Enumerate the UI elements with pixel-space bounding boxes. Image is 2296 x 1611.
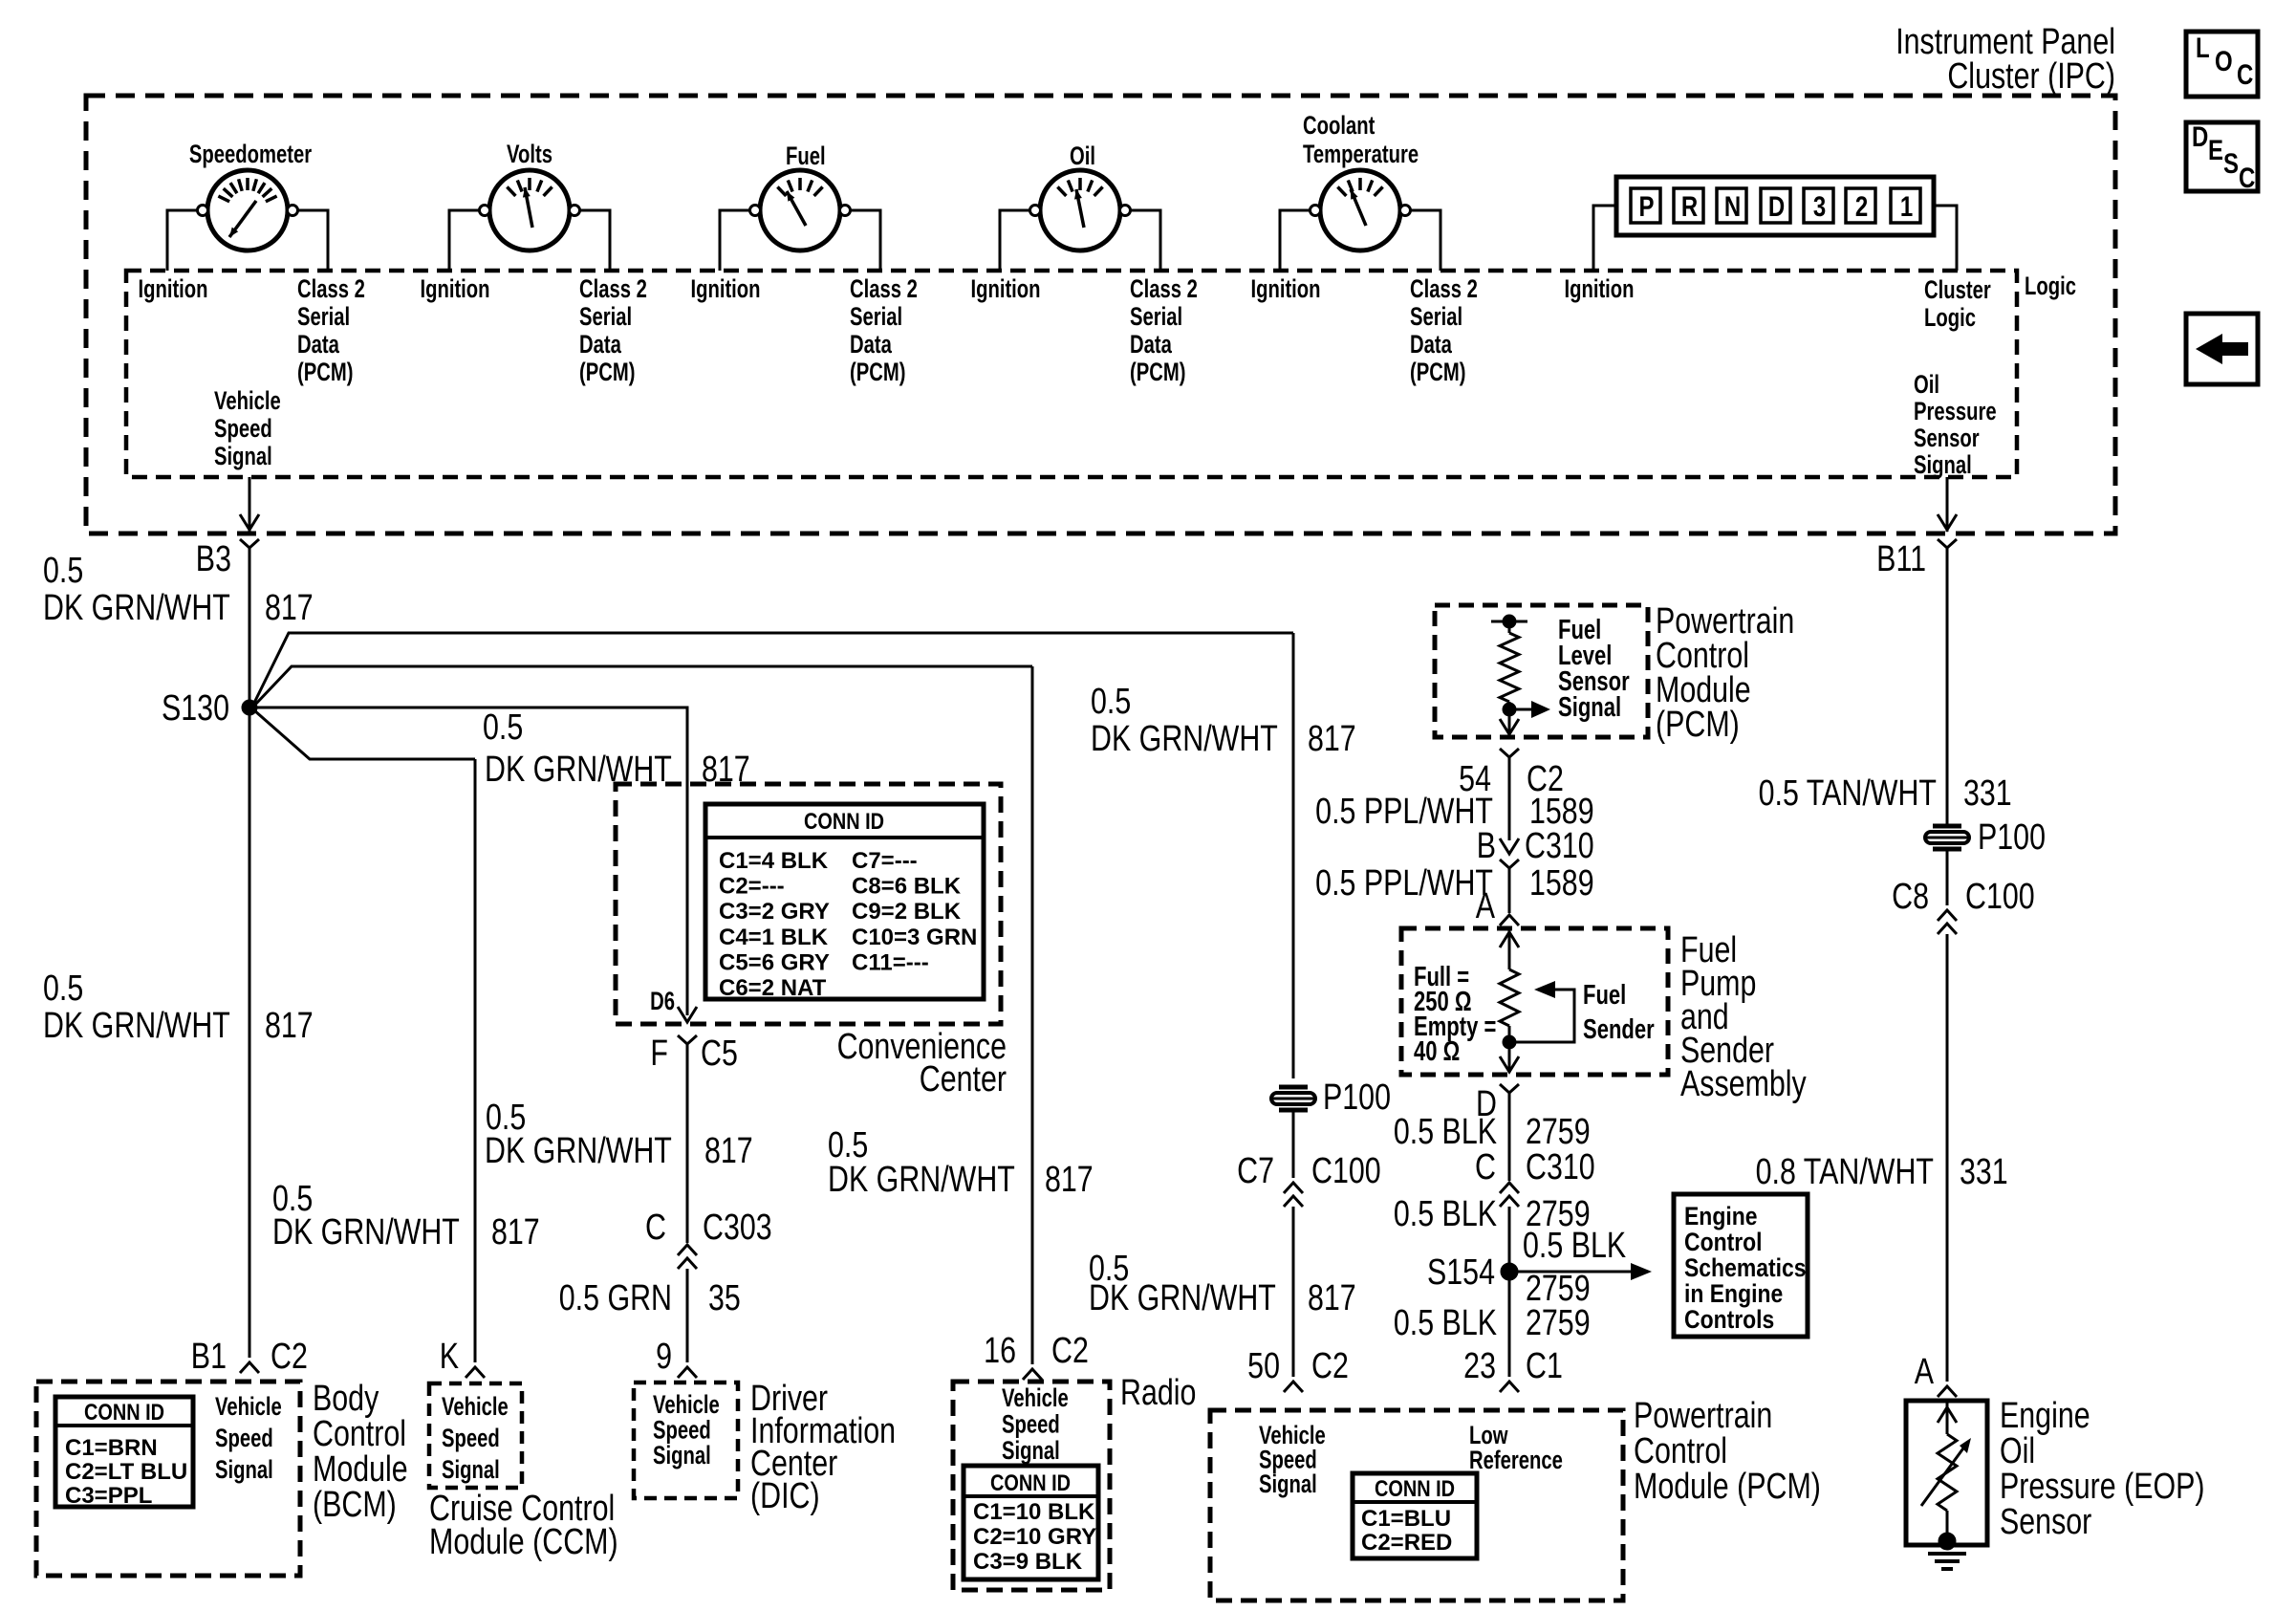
svg-text:Signal: Signal (1914, 450, 1972, 480)
svg-text:Serial: Serial (579, 302, 632, 332)
wire S130 to BCM B1 (branch 5) (249, 708, 251, 1358)
svg-text:CONN ID: CONN ID (990, 1469, 1071, 1495)
svg-text:Body: Body (313, 1379, 379, 1419)
svg-text:C7=---: C7=--- (852, 848, 918, 874)
svg-text:Reference: Reference (1469, 1446, 1563, 1475)
svg-text:CONN ID: CONN ID (84, 1399, 164, 1425)
svg-text:(PCM): (PCM) (579, 358, 635, 387)
svg-text:(PCM): (PCM) (1130, 358, 1185, 387)
svg-text:Coolant: Coolant (1303, 111, 1375, 141)
svg-text:Data: Data (579, 330, 622, 359)
svg-text:Engine: Engine (2000, 1396, 2090, 1436)
svg-text:0.5 BLK: 0.5 BLK (1394, 1194, 1497, 1234)
svg-text:Serial: Serial (1130, 302, 1182, 332)
svg-text:0.5 BLK: 0.5 BLK (1394, 1303, 1497, 1343)
svg-text:0.8 TAN/WHT: 0.8 TAN/WHT (1756, 1152, 1934, 1192)
svg-text:C: C (2237, 57, 2253, 90)
DESC reference box (2186, 122, 2258, 191)
svg-text:Speed: Speed (1002, 1410, 1060, 1440)
svg-text:Signal: Signal (214, 442, 272, 471)
wire S130 to CCM K (branch 4) (254, 710, 475, 759)
CONN ID table (PCM) (1353, 1473, 1477, 1558)
svg-text:DK GRN/WHT: DK GRN/WHT (1091, 719, 1278, 759)
wire S130 to DIC via Convenience Center (branch 3) (257, 708, 687, 1015)
svg-text:C6=2 NAT: C6=2 NAT (719, 975, 827, 1001)
svg-text:C2=---: C2=--- (719, 874, 785, 900)
svg-text:2759: 2759 (1526, 1112, 1591, 1152)
CONN ID table (Convenience Center) (705, 804, 984, 999)
IPC outer dashed box (86, 96, 2115, 533)
svg-text:Logic: Logic (1924, 303, 1976, 333)
svg-text:R: R (1681, 189, 1699, 222)
svg-text:D: D (1768, 189, 1785, 222)
svg-text:DK GRN/WHT: DK GRN/WHT (43, 1006, 230, 1046)
svg-text:B1: B1 (191, 1337, 227, 1377)
svg-text:C8: C8 (1892, 877, 1929, 917)
svg-text:C: C (645, 1208, 666, 1248)
PRNDL gear indicator P R N D 3 2 1 (1616, 177, 1934, 235)
connector C7 C100 (1284, 1183, 1303, 1193)
EOP variable resistor (1946, 1401, 1949, 1434)
svg-text:Temperature: Temperature (1303, 140, 1419, 169)
svg-text:C2=LT BLU: C2=LT BLU (65, 1459, 187, 1485)
svg-text:Class 2: Class 2 (1130, 274, 1198, 304)
svg-text:0.5: 0.5 (43, 969, 83, 1009)
svg-text:D6: D6 (650, 987, 675, 1016)
svg-text:0.5 PPL/WHT: 0.5 PPL/WHT (1315, 863, 1493, 903)
svg-text:C100: C100 (1965, 877, 2035, 917)
connector P100 (left, pass-through grommet) (1279, 1085, 1308, 1090)
svg-text:Speed: Speed (214, 414, 272, 444)
svg-text:Class 2: Class 2 (297, 274, 365, 304)
PCM fuel level sensor dashed box (1435, 605, 1648, 737)
svg-text:817: 817 (1045, 1160, 1094, 1200)
wire Volts ignition lead (449, 210, 480, 271)
wire S130 to Radio 16 C2 (branch 2) (254, 666, 1032, 706)
gauge Speedometer (207, 170, 288, 250)
svg-text:O: O (2215, 44, 2233, 76)
wire Speedometer ignition lead (167, 210, 198, 271)
wire Coolant Temperature ignition lead (1280, 210, 1310, 271)
svg-text:Module (PCM): Module (PCM) (1634, 1467, 1821, 1507)
svg-text:Data: Data (1410, 330, 1453, 359)
svg-text:P100: P100 (1323, 1078, 1391, 1118)
fuel level sensor resistor (1491, 620, 1527, 623)
svg-text:0.5 GRN: 0.5 GRN (559, 1278, 672, 1318)
svg-text:0.5 BLK: 0.5 BLK (1523, 1226, 1626, 1266)
svg-text:(BCM): (BCM) (313, 1485, 397, 1525)
wire Speedometer class 2 serial data lead (297, 210, 328, 271)
wire fuel sender low reference (1508, 1042, 1511, 1073)
IPC inner dashed box (126, 271, 2017, 477)
svg-text:Control: Control (1684, 1228, 1763, 1256)
svg-text:(DIC): (DIC) (750, 1476, 820, 1516)
Fuel Pump and Sender Assembly dashed box (1401, 928, 1668, 1075)
svg-text:P100: P100 (1978, 817, 2046, 858)
Radio dashed box (953, 1382, 1110, 1590)
svg-text:DK GRN/WHT: DK GRN/WHT (485, 1131, 672, 1171)
svg-text:C1=10 BLK: C1=10 BLK (973, 1499, 1095, 1525)
svg-text:C11=---: C11=--- (852, 949, 929, 975)
svg-text:Ignition: Ignition (1564, 274, 1634, 304)
svg-text:Class 2: Class 2 (1410, 274, 1478, 304)
svg-text:0.5: 0.5 (1091, 682, 1131, 722)
svg-text:CONN ID: CONN ID (1375, 1475, 1455, 1501)
svg-text:16: 16 (984, 1331, 1016, 1371)
svg-text:Radio: Radio (1120, 1373, 1196, 1413)
svg-text:C2: C2 (271, 1337, 308, 1377)
svg-text:Speed: Speed (215, 1424, 273, 1453)
svg-text:C10=3 GRN: C10=3 GRN (852, 925, 977, 950)
svg-text:2759: 2759 (1526, 1303, 1591, 1343)
svg-text:0.5 PPL/WHT: 0.5 PPL/WHT (1315, 792, 1493, 832)
svg-text:Sensor: Sensor (2000, 1502, 2091, 1542)
connector F C5 (678, 1035, 697, 1044)
svg-text:Oil: Oil (1914, 370, 1939, 400)
svg-text:Cluster (IPC): Cluster (IPC) (1947, 56, 2115, 97)
svg-text:C3=9 BLK: C3=9 BLK (973, 1549, 1083, 1575)
svg-text:35: 35 (708, 1278, 741, 1318)
svg-text:Class 2: Class 2 (850, 274, 918, 304)
svg-text:Signal: Signal (1259, 1469, 1317, 1499)
Powertrain Control Module (PCM) dashed box (1210, 1410, 1623, 1600)
svg-text:Oil: Oil (1070, 142, 1095, 171)
svg-text:3: 3 (1813, 189, 1826, 222)
wire S130 to PCM 50 C2 (branch 1) (254, 633, 1293, 703)
svg-text:817: 817 (265, 1006, 314, 1046)
wire B3 vehicle speed signal (IPC to S130) (249, 477, 251, 532)
svg-text:Vehicle: Vehicle (215, 1392, 282, 1422)
svg-text:0.5 BLK: 0.5 BLK (1394, 1112, 1497, 1152)
svg-text:Volts: Volts (507, 140, 552, 169)
svg-text:40 Ω: 40 Ω (1414, 1036, 1460, 1067)
svg-text:(PCM): (PCM) (1410, 358, 1465, 387)
svg-text:Module (CCM): Module (CCM) (429, 1522, 618, 1562)
svg-text:C310: C310 (1526, 1147, 1595, 1187)
svg-text:DK GRN/WHT: DK GRN/WHT (43, 588, 230, 628)
svg-text:Ignition: Ignition (138, 274, 207, 304)
wire Oil ignition lead (1000, 210, 1030, 271)
svg-text:C310: C310 (1525, 826, 1594, 866)
svg-text:Pressure: Pressure (1914, 397, 1997, 426)
svg-text:C1: C1 (1526, 1346, 1563, 1386)
svg-text:B3: B3 (196, 539, 231, 579)
svg-text:Oil: Oil (2000, 1431, 2035, 1471)
svg-text:0.5 TAN/WHT: 0.5 TAN/WHT (1759, 773, 1937, 814)
Engine Control Schematics reference box (1674, 1194, 1808, 1337)
svg-text:Powertrain: Powertrain (1634, 1396, 1772, 1436)
svg-text:817: 817 (1308, 719, 1356, 759)
CONN ID table (BCM) (55, 1397, 193, 1507)
svg-text:Pressure (EOP): Pressure (EOP) (2000, 1467, 2205, 1507)
svg-text:Fuel: Fuel (1583, 980, 1626, 1011)
svg-text:(PCM): (PCM) (850, 358, 905, 387)
svg-text:2: 2 (1855, 189, 1868, 222)
gauge Oil (1040, 170, 1120, 250)
svg-text:C3=PPL: C3=PPL (65, 1483, 152, 1509)
svg-text:Logic: Logic (2025, 272, 2076, 301)
svg-text:S154: S154 (1427, 1252, 1495, 1293)
svg-text:Vehicle: Vehicle (442, 1392, 509, 1422)
wire Volts class 2 serial data lead (579, 210, 610, 271)
svg-text:C5=6 GRY: C5=6 GRY (719, 949, 830, 975)
svg-text:C: C (1475, 1147, 1496, 1187)
svg-text:Control: Control (313, 1414, 406, 1454)
svg-text:B: B (1477, 826, 1496, 866)
svg-text:Module: Module (313, 1449, 408, 1490)
svg-text:Schematics: Schematics (1684, 1253, 1807, 1282)
fuel sender wiper arrow (1509, 990, 1574, 1042)
Cruise Control Module (CCM) dashed box (429, 1383, 522, 1488)
svg-text:C9=2 BLK: C9=2 BLK (852, 899, 962, 925)
svg-text:C2: C2 (1051, 1331, 1089, 1371)
splice S130 (242, 700, 257, 715)
svg-text:CONN ID: CONN ID (804, 808, 884, 834)
svg-text:K: K (440, 1337, 459, 1377)
svg-text:1589: 1589 (1529, 863, 1594, 903)
fuel sender rheostat (1508, 928, 1511, 969)
svg-text:C8=6 BLK: C8=6 BLK (852, 874, 962, 900)
wire Coolant Temperature class 2 serial data lead (1410, 210, 1440, 271)
svg-text:817: 817 (704, 1131, 753, 1171)
svg-text:Ignition: Ignition (1250, 274, 1320, 304)
svg-text:Data: Data (297, 330, 340, 359)
svg-text:23: 23 (1463, 1346, 1496, 1386)
svg-text:Signal: Signal (653, 1441, 711, 1470)
EOP wiper arrow (variable) (1921, 1446, 1965, 1506)
svg-text:C7: C7 (1237, 1151, 1274, 1191)
wire fuel level sensor output (1508, 709, 1511, 735)
svg-text:Serial: Serial (850, 302, 902, 332)
svg-text:C1=BRN: C1=BRN (65, 1435, 158, 1461)
svg-text:C2=RED: C2=RED (1361, 1530, 1452, 1556)
fuel level sensor signal arrow (1509, 708, 1537, 711)
svg-text:N: N (1724, 189, 1741, 222)
svg-text:DK GRN/WHT: DK GRN/WHT (272, 1212, 460, 1252)
svg-text:Center: Center (920, 1059, 1007, 1099)
svg-text:C303: C303 (703, 1208, 772, 1248)
gauge Volts (489, 170, 570, 250)
Convenience Center dashed box (616, 784, 1001, 1024)
svg-text:Ignition: Ignition (970, 274, 1040, 304)
svg-text:C: C (2239, 161, 2255, 193)
svg-text:C100: C100 (1311, 1151, 1381, 1191)
svg-text:Class 2: Class 2 (579, 274, 647, 304)
svg-text:C1=BLU: C1=BLU (1361, 1506, 1451, 1532)
svg-text:E: E (2208, 133, 2223, 165)
svg-text:F: F (650, 1034, 668, 1074)
splice S154 (1501, 1263, 1518, 1280)
ground (EOP sensor) (1939, 1533, 1956, 1550)
svg-text:A: A (1915, 1352, 1934, 1392)
svg-text:817: 817 (1308, 1278, 1356, 1318)
svg-text:C5: C5 (701, 1034, 738, 1074)
svg-text:Vehicle: Vehicle (1002, 1383, 1069, 1413)
svg-text:in Engine: in Engine (1684, 1279, 1783, 1308)
svg-text:C1=4 BLK: C1=4 BLK (719, 848, 829, 874)
svg-text:817: 817 (491, 1212, 540, 1252)
svg-text:Speed: Speed (442, 1424, 500, 1453)
connector C C303 (678, 1245, 697, 1255)
svg-text:L: L (2196, 31, 2210, 63)
Engine Oil Pressure (EOP) Sensor box (1906, 1401, 1987, 1545)
svg-text:Speedometer: Speedometer (189, 140, 312, 169)
svg-text:331: 331 (1963, 773, 2012, 814)
svg-text:C3=2 GRY: C3=2 GRY (719, 899, 830, 925)
svg-text:817: 817 (265, 588, 314, 628)
svg-text:Data: Data (1130, 330, 1173, 359)
wire Oil class 2 serial data lead (1130, 210, 1160, 271)
svg-text:S: S (2223, 146, 2239, 179)
wire Fuel ignition lead (720, 210, 750, 271)
svg-text:1: 1 (1900, 189, 1913, 222)
connector P100 (right) (1933, 824, 1961, 829)
wire PRNDL cluster logic lead (1934, 206, 1957, 271)
svg-text:Serial: Serial (297, 302, 350, 332)
wire S154 branch to engine controls (1509, 1271, 1636, 1274)
svg-text:Control: Control (1634, 1431, 1727, 1471)
Body Control Module (BCM) dashed box (36, 1382, 300, 1576)
wire PRNDL ignition lead (1593, 206, 1616, 271)
svg-text:C4=1 BLK: C4=1 BLK (719, 925, 829, 950)
svg-text:Sensor: Sensor (1914, 424, 1980, 453)
svg-text:DK GRN/WHT: DK GRN/WHT (828, 1160, 1015, 1200)
svg-text:0.5: 0.5 (483, 708, 523, 748)
wire B11 oil pressure sensor signal (1946, 477, 1949, 532)
svg-text:C2: C2 (1311, 1346, 1349, 1386)
svg-text:Serial: Serial (1410, 302, 1462, 332)
svg-text:Engine: Engine (1684, 1202, 1758, 1230)
svg-text:Signal: Signal (1558, 692, 1621, 723)
svg-text:Signal: Signal (215, 1455, 273, 1485)
svg-text:D: D (2192, 120, 2208, 152)
svg-text:Ignition: Ignition (690, 274, 760, 304)
svg-text:P: P (1638, 189, 1654, 222)
LOC reference box (2186, 32, 2258, 97)
wire Fuel class 2 serial data lead (850, 210, 880, 271)
svg-text:C2=10 GRY: C2=10 GRY (973, 1524, 1096, 1550)
svg-text:0.5: 0.5 (43, 551, 83, 591)
svg-text:331: 331 (1960, 1152, 2008, 1192)
svg-text:9: 9 (656, 1337, 672, 1377)
svg-text:Fuel: Fuel (786, 142, 826, 171)
svg-text:Signal: Signal (1002, 1436, 1060, 1466)
svg-text:DK GRN/WHT: DK GRN/WHT (1089, 1278, 1276, 1318)
svg-text:(PCM): (PCM) (297, 358, 353, 387)
Driver Information Center (DIC) dashed box (634, 1382, 738, 1498)
gauge Fuel (760, 170, 840, 250)
svg-text:Cluster: Cluster (1924, 275, 1991, 305)
svg-text:(PCM): (PCM) (1656, 705, 1740, 745)
svg-text:Sender: Sender (1583, 1014, 1655, 1045)
svg-text:A: A (1476, 886, 1495, 926)
svg-text:Signal: Signal (442, 1455, 500, 1485)
svg-text:S130: S130 (162, 688, 229, 729)
svg-text:Vehicle: Vehicle (214, 386, 281, 416)
CONN ID table (Radio) (964, 1466, 1098, 1579)
svg-text:Data: Data (850, 330, 893, 359)
svg-text:50: 50 (1247, 1346, 1280, 1386)
svg-text:Assembly: Assembly (1680, 1064, 1807, 1104)
svg-text:Ignition: Ignition (420, 274, 489, 304)
svg-text:Controls: Controls (1684, 1305, 1774, 1334)
svg-text:B11: B11 (1876, 539, 1926, 579)
gauge Coolant Temperature (1320, 170, 1400, 250)
left arrow navigation box (2186, 314, 2258, 384)
